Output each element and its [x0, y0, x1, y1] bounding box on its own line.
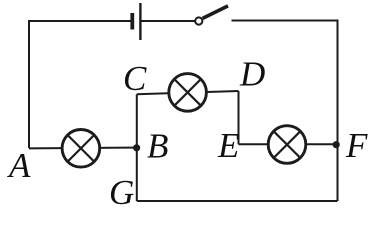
switch lever: [203, 6, 228, 19]
wire: E to F horizontal: [239, 143, 338, 145]
lamp L1 (between A and B): [62, 130, 100, 168]
svg-text:D: D: [239, 55, 265, 94]
svg-text:G: G: [109, 173, 134, 207]
svg-text:E: E: [217, 126, 239, 165]
switch pivot circle: [195, 17, 202, 24]
battery: long thin positive plate: [139, 3, 141, 40]
wire: node B vertical (C-branch corner down to G corner): [136, 94, 138, 201]
wire: D branch vertical down to E level: [238, 91, 240, 144]
lamp L2 (between C and D): [169, 74, 207, 112]
battery: short thick negative plate: [130, 13, 134, 30]
wire: top-left horizontal to battery: [29, 21, 131, 148]
lamp L3 (between E and F): [268, 126, 306, 164]
svg-text:A: A: [7, 146, 31, 185]
wire: switch to top-right corner and right rail down: [232, 21, 338, 202]
svg-text:F: F: [345, 126, 368, 165]
svg-text:B: B: [147, 127, 168, 166]
wire: battery to switch: [142, 20, 195, 22]
wire: bottom rail G to bottom-right: [137, 200, 338, 202]
node B junction dot: [133, 144, 140, 151]
svg-text:C: C: [123, 59, 147, 98]
node F junction dot: [333, 141, 340, 148]
wire: C branch horizontal: [137, 91, 239, 94]
wire: A to B horizontal: [29, 147, 137, 150]
